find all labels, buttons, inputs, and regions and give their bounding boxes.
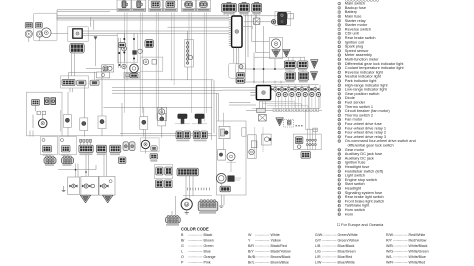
svg-text:G: G xyxy=(181,244,184,248)
wire bundle top xyxy=(57,16,229,20)
wire coil feed xyxy=(228,13,288,29)
aux dc jack 36 xyxy=(248,127,257,159)
svg-text:Black/Red: Black/Red xyxy=(271,244,287,248)
signaling system fuse 44 xyxy=(158,113,166,126)
horn box xyxy=(141,138,160,152)
svg-text:B/Y: B/Y xyxy=(248,249,254,253)
svg-text:W/L: W/L xyxy=(386,255,392,259)
thermo couplers 2 xyxy=(193,131,207,139)
multi-function meter 14 xyxy=(250,86,270,100)
thermo switch 1 xyxy=(175,114,190,124)
wire row links xyxy=(240,57,305,83)
four-wheel drive fuse 29 xyxy=(140,117,148,130)
thermo couplers xyxy=(176,131,190,139)
band conn 3 xyxy=(110,145,121,152)
shield row2 xyxy=(311,72,318,81)
connector cell 5 xyxy=(182,0,196,11)
gear position switch 22 xyxy=(185,31,194,67)
ground marks xyxy=(62,186,66,192)
speed sensor 12 xyxy=(269,37,282,58)
wire vertical drops xyxy=(125,13,207,122)
relay box band 1 xyxy=(41,137,58,155)
wire bundle upper-mid xyxy=(83,27,230,36)
headlight 43 b xyxy=(99,176,115,195)
svg-text:Black: Black xyxy=(204,233,213,237)
main switch connector xyxy=(70,43,84,53)
svg-text:P: P xyxy=(181,260,184,264)
connector cell 6 xyxy=(196,0,210,11)
headlight 43 a xyxy=(81,176,98,195)
reverse relay parts xyxy=(133,49,143,54)
headlight relay box xyxy=(68,177,80,194)
circuit breaker 26 xyxy=(157,107,166,120)
horn conn xyxy=(151,146,157,151)
svg-text:Br: Br xyxy=(181,239,185,243)
fuse coupler box xyxy=(61,76,89,88)
wire riser xyxy=(91,17,94,30)
band round conns xyxy=(123,142,135,151)
coupler grid right xyxy=(90,80,99,85)
CDI coupler 1 xyxy=(222,2,237,15)
connector circle a xyxy=(122,46,127,51)
main switch 1 housing xyxy=(33,13,57,41)
svg-text:B: B xyxy=(181,233,184,237)
wire right mid xyxy=(306,85,318,132)
meter coupler row2-2 xyxy=(298,72,308,80)
svg-text:Blue/White: Blue/White xyxy=(338,260,355,264)
small coupler mid-left xyxy=(119,157,126,163)
trapezoid conn b xyxy=(62,156,74,164)
handlebar switch left 39 xyxy=(293,129,321,150)
4wd switch circle xyxy=(227,153,237,163)
svg-text:L/R: L/R xyxy=(315,255,321,259)
on-command 4wd switch 33 xyxy=(217,121,247,195)
wire top-left up xyxy=(57,10,117,20)
connector labels xyxy=(43,13,308,226)
resistor box xyxy=(254,18,260,24)
band conn 2 xyxy=(96,145,106,152)
connector cell 4 xyxy=(163,0,177,11)
junction box small xyxy=(97,72,110,78)
svg-text:COLOR CODE: COLOR CODE xyxy=(181,226,209,231)
CDI unit mount xyxy=(73,29,82,38)
headlight shield a xyxy=(80,195,90,203)
coil aux box xyxy=(288,14,294,19)
meter lower connector xyxy=(257,100,308,121)
ignition coil 10 xyxy=(275,11,291,25)
svg-text:Green/White: Green/White xyxy=(338,233,358,237)
light switch box 40 xyxy=(155,164,173,178)
svg-text:White/Blue: White/Blue xyxy=(409,255,426,259)
svg-text:B/R: B/R xyxy=(248,244,254,248)
meter coupler row1-2 xyxy=(298,61,308,68)
connector cell 3 xyxy=(149,0,163,11)
4wd bottom conn xyxy=(220,186,230,192)
ring sensor xyxy=(216,173,241,183)
main fuse 4 xyxy=(63,115,71,128)
svg-text:R/Y: R/Y xyxy=(386,239,393,243)
thermo switch 2 xyxy=(192,114,207,124)
wire horn xyxy=(145,130,147,154)
connector circle b xyxy=(122,64,126,68)
svg-text:Br/L: Br/L xyxy=(248,260,255,264)
svg-text:White/Green: White/Green xyxy=(409,249,429,253)
shield row1 xyxy=(311,60,318,69)
4wd inner conn right xyxy=(242,128,246,136)
svg-text:W/R: W/R xyxy=(386,260,393,264)
wire band drops xyxy=(47,155,62,157)
meter pad row xyxy=(273,108,319,111)
legend top cut row xyxy=(345,0,378,1)
wire gear position xyxy=(187,67,189,80)
coupler pair below xyxy=(156,180,173,188)
wire gear xyxy=(172,176,212,216)
connector cell 1 xyxy=(117,0,131,11)
junction box mid xyxy=(124,73,140,78)
horn conn below xyxy=(150,154,158,160)
wire harness mid xyxy=(62,107,217,136)
reverse relay coupler xyxy=(145,40,154,48)
svg-text:Y: Y xyxy=(248,239,251,243)
meter coupler row1-1 xyxy=(284,61,296,68)
starter motor 6 xyxy=(38,119,47,128)
svg-text:O: O xyxy=(181,255,184,259)
indicator shield b xyxy=(283,50,290,58)
round connector 2 xyxy=(36,31,42,37)
main switch coupler B xyxy=(35,22,42,28)
wire 4wd box down xyxy=(219,195,224,207)
main switch coupler A xyxy=(25,22,32,28)
svg-text:Green/Yellow: Green/Yellow xyxy=(338,239,360,243)
svg-text:G/W: G/W xyxy=(315,233,323,237)
svg-text:R/W: R/W xyxy=(386,233,394,237)
svg-text:Red/White: Red/White xyxy=(409,233,426,237)
svg-text:Red/Yellow: Red/Yellow xyxy=(409,239,427,243)
color code table xyxy=(181,233,429,264)
gear motor 34 xyxy=(181,199,192,210)
svg-text:Brown/Blue: Brown/Blue xyxy=(271,260,289,264)
color code header xyxy=(181,226,209,231)
meter enclosure wires xyxy=(246,85,322,111)
diode 23 xyxy=(284,119,303,127)
svg-text:☐ For Europe and Oceania: ☐ For Europe and Oceania xyxy=(337,223,384,227)
starter relay 5 xyxy=(27,92,63,136)
start switch relay box xyxy=(140,57,163,71)
svg-text:W/G: W/G xyxy=(386,249,393,253)
pickup coil circle xyxy=(130,64,139,78)
svg-text:Blue/Black: Blue/Black xyxy=(338,244,355,248)
headlight shield b xyxy=(103,195,113,203)
connector cell 2 xyxy=(132,0,146,11)
trapezoid conn a xyxy=(44,156,56,164)
svg-text:Yellow: Yellow xyxy=(271,239,282,243)
svg-text:L/G: L/G xyxy=(315,249,321,253)
legend footnote xyxy=(337,223,384,227)
svg-text:G/Y: G/Y xyxy=(315,239,322,243)
wire main-switch to box xyxy=(51,33,68,35)
svg-text:Blue/Green: Blue/Green xyxy=(338,249,356,253)
svg-text:Brown: Brown xyxy=(204,239,214,243)
headlight fuse 38 xyxy=(98,116,106,129)
CDI coupler 2 xyxy=(239,2,250,15)
wire harness mid-upper xyxy=(96,80,223,93)
svg-text:White: White xyxy=(271,233,280,237)
wire bulb columns xyxy=(271,85,319,109)
wire meter left xyxy=(223,88,257,105)
backup fuse 2 box xyxy=(68,27,88,41)
svg-text:W/B: W/B xyxy=(386,244,393,248)
svg-text:L/W: L/W xyxy=(315,260,322,264)
ground chassis xyxy=(94,36,98,40)
svg-text:M: M xyxy=(185,202,188,207)
CDI unit 8 xyxy=(229,16,242,51)
4wd relay inner xyxy=(219,126,230,138)
wire coupler top xyxy=(29,37,97,92)
meter coupler row2-1 xyxy=(285,72,295,80)
main switch 1 xyxy=(42,28,52,38)
wire sensor feed xyxy=(245,15,275,83)
legend list xyxy=(338,2,416,217)
svg-text:White/Black: White/Black xyxy=(409,244,428,248)
wire coupler drop xyxy=(96,38,121,68)
wire headlight drops xyxy=(58,152,107,177)
aux dc jack fuse 35 xyxy=(262,127,272,152)
CDI coupler 3 xyxy=(252,2,262,15)
indicator lights row2 xyxy=(277,92,321,96)
lower shield bulb xyxy=(276,118,284,126)
svg-text:Brown/Black: Brown/Black xyxy=(271,255,291,259)
indicator lights row1 15-21 xyxy=(271,87,319,91)
svg-text:Blue/Red: Blue/Red xyxy=(338,255,353,259)
wire trunk mid xyxy=(212,80,219,140)
svg-text:Br/B: Br/B xyxy=(248,255,256,259)
svg-text:W: W xyxy=(248,233,252,237)
svg-text:Black/Yellow: Black/Yellow xyxy=(271,249,291,253)
indicator shield a xyxy=(272,50,281,58)
lower-left coupler xyxy=(166,215,181,223)
ground gear motor xyxy=(185,210,189,214)
svg-text:Orange: Orange xyxy=(204,255,216,259)
rear brake switch 9 xyxy=(229,51,246,84)
svg-text:L/B: L/B xyxy=(315,244,321,248)
spark plug 11 xyxy=(271,20,275,24)
wire label ticks xyxy=(187,188,209,191)
main harness band conn xyxy=(79,139,93,152)
relay box band 2 xyxy=(59,137,77,155)
round connector 1 xyxy=(25,30,32,37)
svg-text:White/Red: White/Red xyxy=(409,260,426,264)
main harness coupler xyxy=(177,168,198,176)
wire starter xyxy=(30,105,43,136)
wire 4wd inner xyxy=(221,113,231,186)
svg-text:Green: Green xyxy=(204,244,214,248)
svg-text:Horn: Horn xyxy=(345,212,353,216)
horn 49 xyxy=(141,140,149,148)
reverse switch 7 xyxy=(117,33,138,62)
wire relay xyxy=(86,67,102,69)
gear motor coupler xyxy=(198,200,218,211)
ignition fuse 37 xyxy=(80,118,88,131)
gear lock switch xyxy=(218,150,226,160)
four wheel drive relay small xyxy=(102,65,114,72)
svg-text:Blue: Blue xyxy=(204,249,211,253)
wire fuse verticals xyxy=(61,72,162,138)
handlebar coupler xyxy=(301,152,310,159)
svg-text:Pink: Pink xyxy=(204,260,211,264)
svg-text:L: L xyxy=(181,249,183,253)
